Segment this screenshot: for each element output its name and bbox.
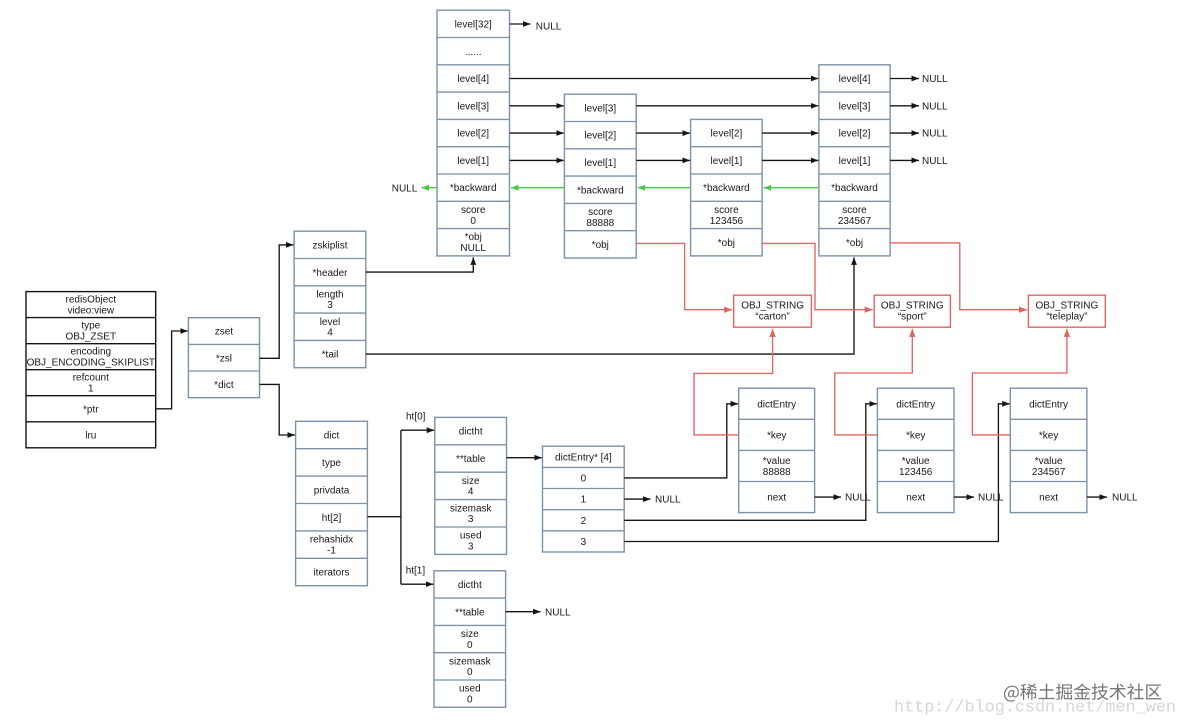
- svg-text:2: 2: [581, 516, 587, 527]
- svg-text:NULL: NULL: [922, 74, 948, 85]
- svg-text:dictEntry: dictEntry: [1029, 399, 1068, 410]
- svg-text:dictEntry: dictEntry: [896, 399, 935, 410]
- svg-text:privdata: privdata: [314, 485, 350, 496]
- svg-text:**table: **table: [456, 454, 486, 465]
- svg-text:level[3]: level[3]: [584, 103, 616, 114]
- svg-text:NULL: NULL: [460, 243, 486, 254]
- svg-text:*obj: *obj: [718, 238, 735, 249]
- svg-text:length: length: [316, 289, 343, 300]
- svg-text:next: next: [1039, 493, 1058, 504]
- svg-text:*ptr: *ptr: [83, 404, 99, 415]
- svg-text:level[32]: level[32]: [455, 19, 492, 30]
- svg-text:3: 3: [581, 537, 587, 548]
- svg-text:OBJ_ZSET: OBJ_ZSET: [66, 331, 117, 342]
- svg-text:“carton”: “carton”: [755, 312, 789, 323]
- svg-text:NULL: NULL: [545, 607, 571, 618]
- svg-text:123456: 123456: [899, 467, 933, 478]
- svg-text:4: 4: [327, 328, 333, 339]
- svg-text:next: next: [767, 493, 786, 504]
- svg-text:used: used: [460, 531, 482, 542]
- svg-text:1: 1: [88, 384, 94, 395]
- svg-text:redisObject: redisObject: [66, 295, 117, 306]
- svg-text:score: score: [714, 205, 739, 216]
- svg-text:**table: **table: [455, 607, 485, 618]
- svg-text:type: type: [81, 321, 100, 332]
- svg-text:video:view: video:view: [67, 305, 114, 316]
- svg-text:ht[1]: ht[1]: [406, 566, 426, 577]
- svg-text:dictEntry: dictEntry: [757, 399, 796, 410]
- svg-text:level[2]: level[2]: [839, 129, 871, 140]
- svg-text:*tail: *tail: [322, 350, 339, 361]
- svg-text:88888: 88888: [763, 467, 791, 478]
- svg-text:“sport”: “sport”: [898, 312, 927, 323]
- svg-text:level[1]: level[1]: [457, 156, 489, 167]
- svg-text:level[1]: level[1]: [584, 158, 616, 169]
- svg-text:OBJ_STRING: OBJ_STRING: [1036, 301, 1099, 312]
- svg-text:NULL: NULL: [978, 493, 1004, 504]
- svg-text:dictht: dictht: [458, 580, 482, 591]
- svg-text:0: 0: [467, 667, 473, 678]
- svg-text:sizemask: sizemask: [449, 656, 492, 667]
- svg-text:iterators: iterators: [313, 568, 349, 579]
- svg-text:NULL: NULL: [536, 21, 562, 32]
- svg-text:level: level: [320, 317, 341, 328]
- svg-text:ht[2]: ht[2]: [322, 513, 342, 524]
- svg-text:level[4]: level[4]: [839, 74, 871, 85]
- svg-text:“teleplay”: “teleplay”: [1046, 312, 1087, 323]
- svg-text:refcount: refcount: [73, 373, 109, 384]
- svg-text:*backward: *backward: [577, 185, 624, 196]
- svg-text:size: size: [462, 476, 480, 487]
- svg-text:123456: 123456: [710, 216, 744, 227]
- svg-text:next: next: [906, 493, 925, 504]
- svg-text:0: 0: [470, 216, 476, 227]
- svg-text:1: 1: [581, 495, 587, 506]
- svg-text:level[1]: level[1]: [711, 156, 743, 167]
- svg-text:encoding: encoding: [71, 347, 112, 358]
- svg-text:NULL: NULL: [922, 156, 948, 167]
- svg-text:*backward: *backward: [450, 183, 497, 194]
- svg-text:3: 3: [327, 300, 333, 311]
- svg-text:level[4]: level[4]: [457, 74, 489, 85]
- svg-text:NULL: NULL: [922, 101, 948, 112]
- svg-text:0: 0: [467, 694, 473, 705]
- svg-text:level[3]: level[3]: [839, 101, 871, 112]
- svg-text:score: score: [588, 207, 613, 218]
- svg-text:3: 3: [468, 542, 474, 553]
- svg-text:0: 0: [467, 640, 473, 651]
- svg-text:NULL: NULL: [845, 493, 871, 504]
- svg-text:*header: *header: [312, 268, 348, 279]
- svg-text:level[2]: level[2]: [711, 129, 743, 140]
- svg-text:*key: *key: [1039, 431, 1058, 442]
- svg-text:*value: *value: [1035, 456, 1063, 467]
- svg-text:*value: *value: [902, 456, 930, 467]
- svg-text:size: size: [461, 629, 479, 640]
- svg-text:NULL: NULL: [655, 495, 681, 506]
- svg-text:rehashidx: rehashidx: [310, 535, 353, 546]
- svg-text:level[2]: level[2]: [584, 131, 616, 142]
- svg-text:*obj: *obj: [465, 232, 482, 243]
- svg-text:dictEntry* [4]: dictEntry* [4]: [555, 452, 612, 463]
- svg-text:......: ......: [465, 47, 482, 58]
- svg-text:dict: dict: [324, 431, 340, 442]
- svg-text:sizemask: sizemask: [450, 503, 493, 514]
- svg-text:*key: *key: [906, 431, 925, 442]
- svg-text:dictht: dictht: [459, 427, 483, 438]
- svg-text:*backward: *backward: [703, 183, 750, 194]
- svg-text:lru: lru: [85, 430, 96, 441]
- svg-text:OBJ_STRING: OBJ_STRING: [741, 301, 804, 312]
- svg-text:4: 4: [468, 487, 474, 498]
- svg-text:*dict: *dict: [214, 380, 234, 391]
- svg-text:-1: -1: [327, 545, 336, 556]
- svg-text:234567: 234567: [838, 216, 872, 227]
- svg-text:OBJ_ENCODING_SKIPLIST: OBJ_ENCODING_SKIPLIST: [27, 358, 155, 369]
- svg-text:NULL: NULL: [1112, 493, 1138, 504]
- svg-text:OBJ_STRING: OBJ_STRING: [881, 301, 944, 312]
- svg-text:*zsl: *zsl: [216, 353, 232, 364]
- svg-text:used: used: [459, 684, 481, 695]
- svg-text:88888: 88888: [586, 218, 614, 229]
- svg-text:level[3]: level[3]: [457, 101, 489, 112]
- svg-text:*obj: *obj: [846, 238, 863, 249]
- svg-text:level[2]: level[2]: [457, 129, 489, 140]
- svg-text:score: score: [842, 205, 867, 216]
- svg-text:*backward: *backward: [831, 183, 878, 194]
- svg-text:zskiplist: zskiplist: [312, 240, 347, 251]
- svg-text:0: 0: [581, 474, 587, 485]
- svg-text:*value: *value: [763, 456, 791, 467]
- svg-text:http://blog.csdn.net/men_wen: http://blog.csdn.net/men_wen: [894, 699, 1176, 718]
- svg-text:234567: 234567: [1032, 467, 1066, 478]
- svg-text:zset: zset: [215, 327, 234, 338]
- svg-text:NULL: NULL: [922, 129, 948, 140]
- svg-text:type: type: [322, 458, 341, 469]
- svg-text:NULL: NULL: [392, 183, 418, 194]
- svg-text:3: 3: [468, 514, 474, 525]
- svg-text:ht[0]: ht[0]: [406, 412, 426, 423]
- svg-text:score: score: [461, 205, 486, 216]
- svg-text:level[1]: level[1]: [839, 156, 871, 167]
- svg-text:*key: *key: [767, 431, 786, 442]
- svg-text:*obj: *obj: [592, 240, 609, 251]
